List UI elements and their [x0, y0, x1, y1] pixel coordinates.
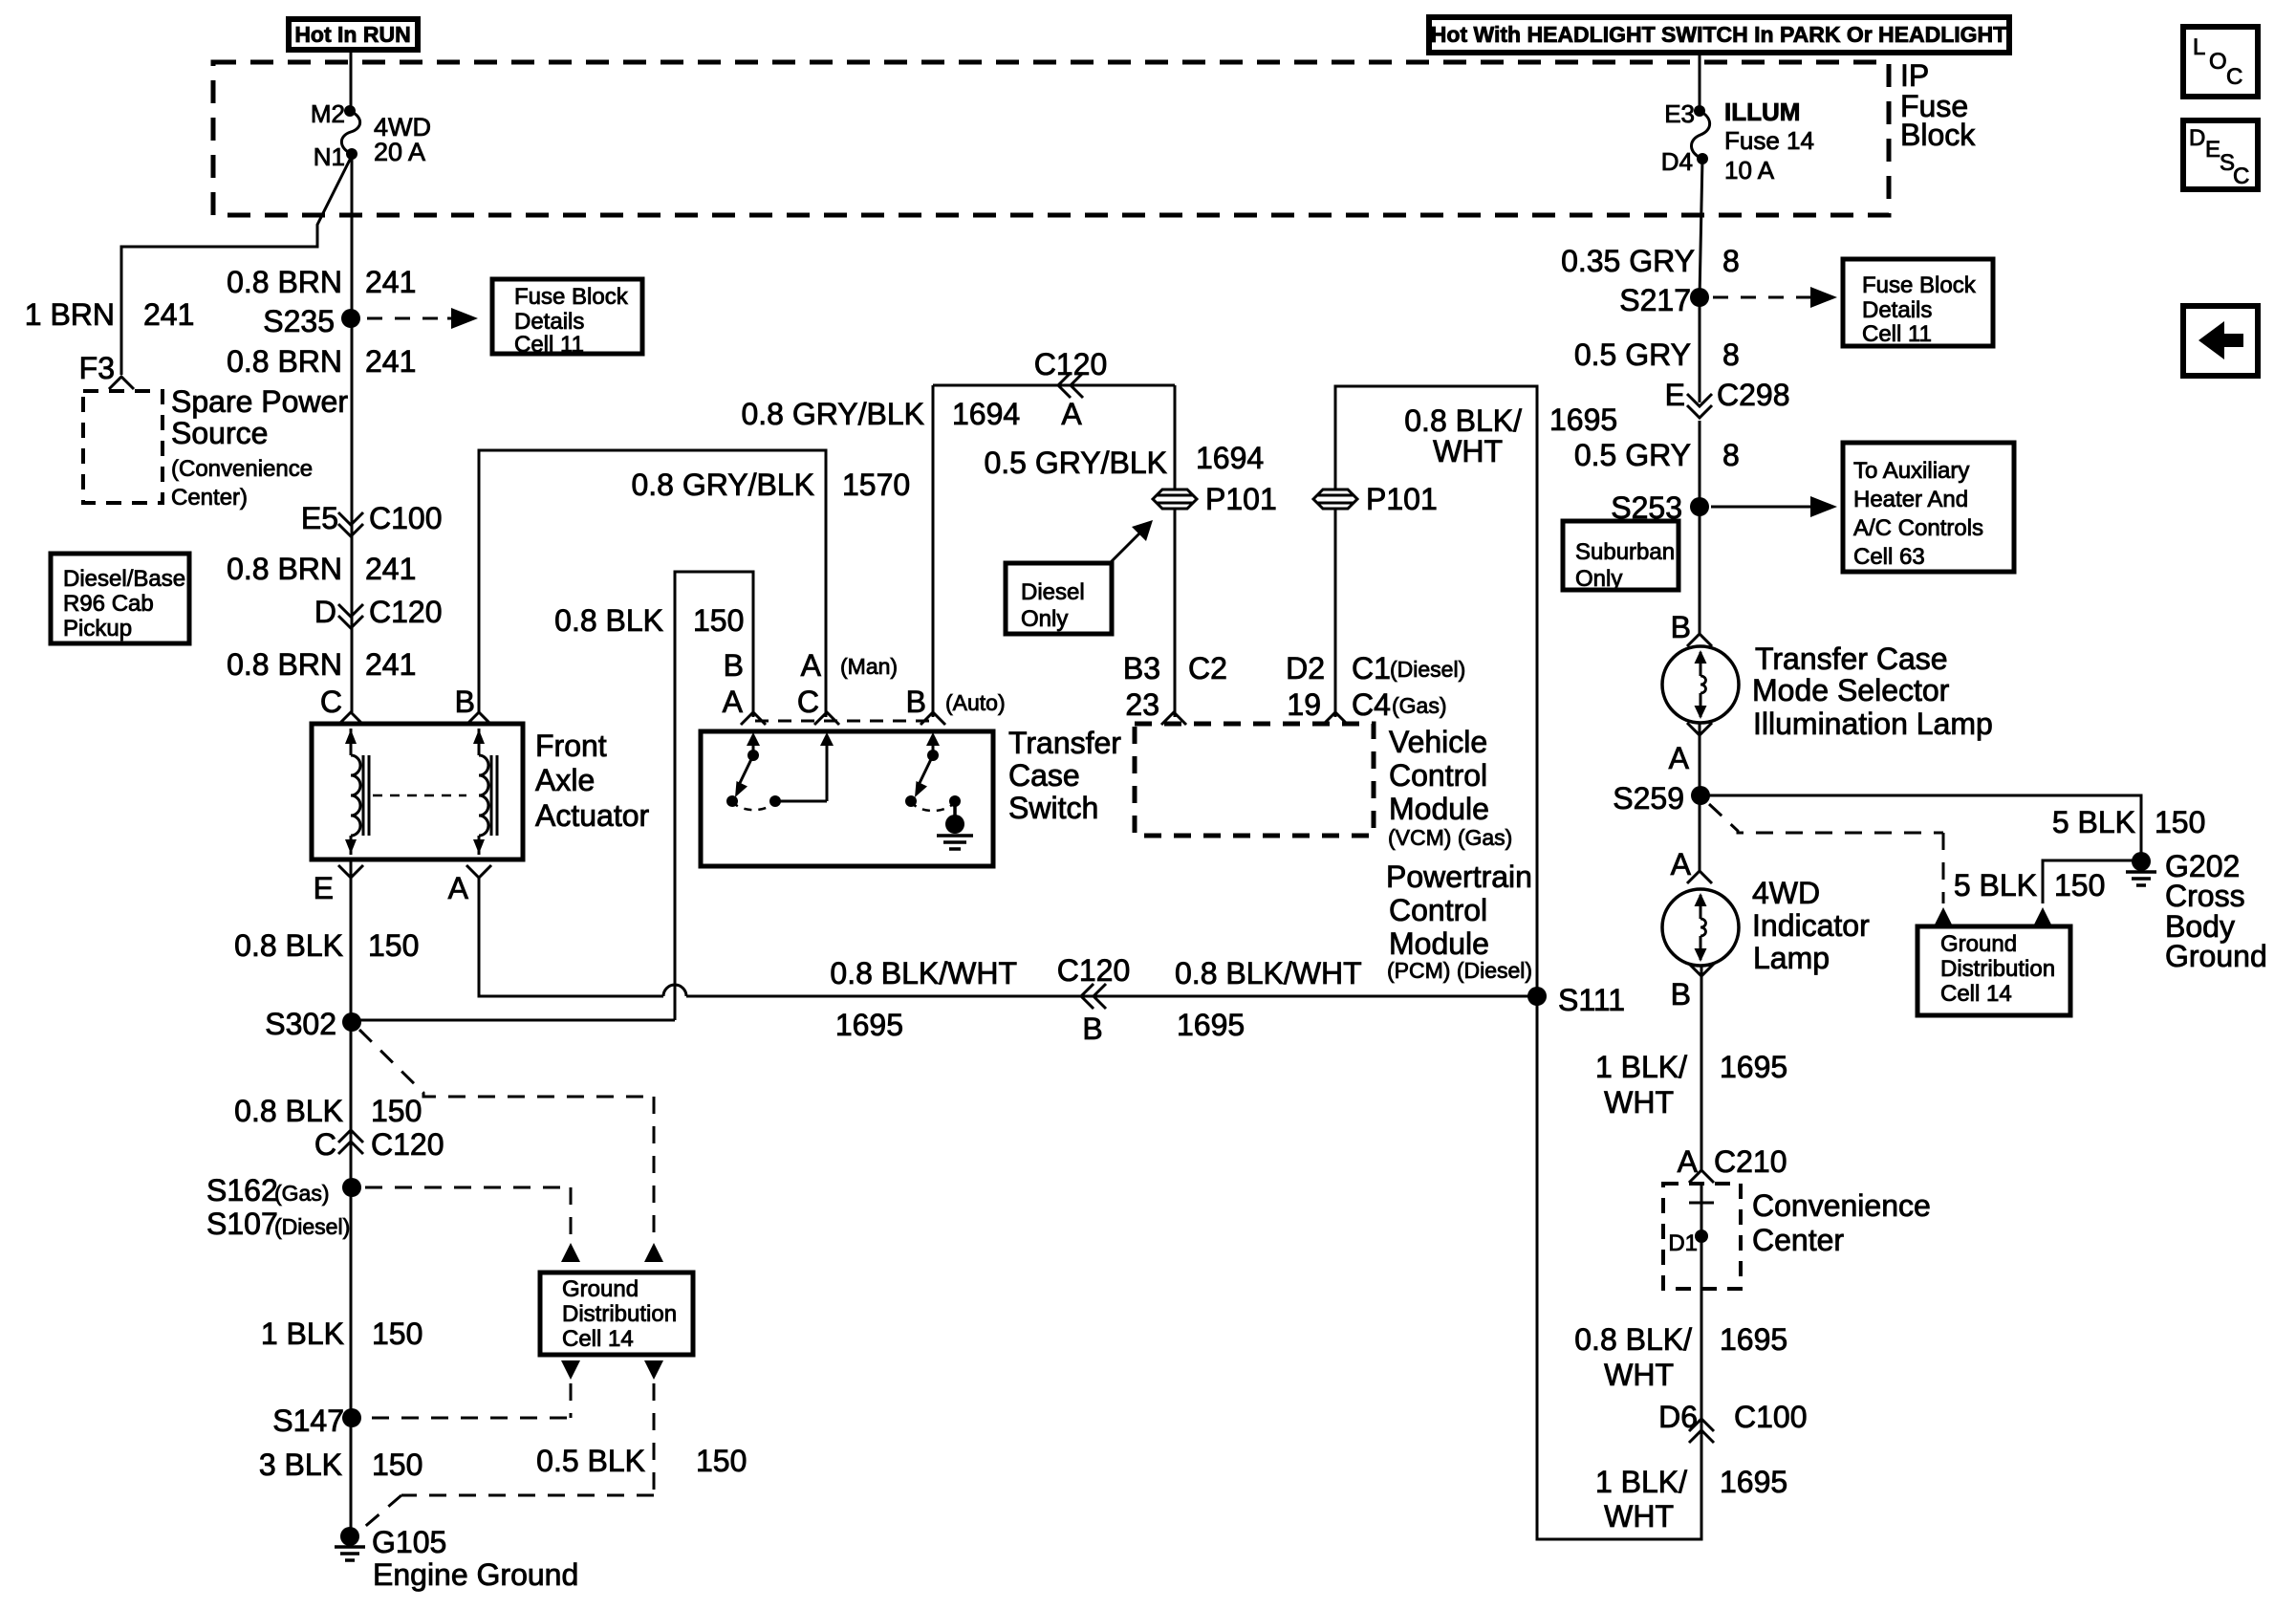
svg-text:(PCM) (Diesel): (PCM) (Diesel) [1387, 958, 1532, 983]
svg-text:(Man): (Man) [840, 654, 898, 679]
wire: D4 down to S217 [1700, 159, 1702, 297]
component: Spare Power Source dashed box [83, 391, 162, 503]
svg-text:Cell 63: Cell 63 [1853, 544, 1925, 570]
component: Vehicle Control Module dashed box [1135, 724, 1374, 836]
ground G202 Cross Body Ground [2132, 852, 2151, 871]
svg-text:Cell 11: Cell 11 [514, 332, 584, 358]
svg-text:B3: B3 [1123, 651, 1160, 685]
svg-text:0.8 BLK/WHT: 0.8 BLK/WHT [1175, 956, 1362, 990]
svg-text:1695: 1695 [1549, 402, 1617, 437]
component: Transfer Case Switch box [701, 731, 993, 866]
svg-text:C: C [320, 685, 342, 719]
svg-text:IP: IP [1900, 58, 1929, 93]
svg-text:D1: D1 [1668, 1230, 1698, 1256]
svg-text:C1: C1 [1352, 651, 1391, 685]
fuse F 4WD 20A (M2-N1) [344, 105, 356, 117]
reference box: To Auxiliary Heater And A/C Controls Cell 63 [1843, 443, 2014, 572]
svg-text:Pickup: Pickup [63, 616, 132, 642]
svg-text:8: 8 [1722, 244, 1740, 278]
wire: VCM/PCM pin C1-C4 up through P101 over to S111 riser [1335, 386, 1537, 996]
svg-text:Center): Center) [171, 485, 248, 511]
svg-text:S111: S111 [1558, 983, 1625, 1017]
svg-text:Source: Source [171, 416, 268, 450]
wire: convenience center down to C100 [1700, 1289, 1703, 1455]
svg-text:0.8 BLK: 0.8 BLK [234, 928, 343, 963]
splice S147 [342, 1408, 361, 1427]
svg-text:150: 150 [368, 928, 419, 963]
wire: S217 down to C298 [1699, 297, 1701, 402]
svg-text:0.8 BRN: 0.8 BRN [227, 647, 342, 682]
svg-text:C: C [797, 685, 819, 719]
svg-text:A: A [1671, 847, 1692, 881]
note box: Diesel Only with arrow to P101 [1006, 563, 1112, 634]
svg-text:Ground: Ground [1940, 931, 2017, 957]
svg-text:Details: Details [514, 309, 584, 335]
svg-text:C100: C100 [369, 501, 443, 535]
svg-text:Control: Control [1389, 893, 1487, 927]
svg-text:C: C [314, 1127, 336, 1162]
svg-text:Cell 11: Cell 11 [1862, 321, 1932, 347]
svg-text:8: 8 [1722, 337, 1740, 372]
svg-text:S162: S162 [206, 1173, 278, 1207]
dashed reference arrow S217 to Fuse Block Details [1713, 296, 1807, 299]
svg-text:Cross: Cross [2165, 879, 2245, 913]
svg-text:Illumination Lamp: Illumination Lamp [1753, 707, 1993, 741]
pin A out of illumination lamp [1687, 723, 1712, 735]
svg-text:0.8 BLK/: 0.8 BLK/ [1404, 403, 1522, 438]
svg-text:10 A: 10 A [1724, 156, 1775, 185]
svg-text:B: B [906, 685, 926, 719]
svg-text:Only: Only [1021, 606, 1068, 632]
svg-text:WHT: WHT [1433, 434, 1503, 468]
svg-text:Diesel/Base: Diesel/Base [63, 566, 185, 592]
wire: actuator A down and right to S111 [479, 878, 663, 996]
svg-text:150: 150 [2054, 868, 2105, 903]
svg-text:5 BLK: 5 BLK [1954, 868, 2037, 903]
svg-text:1694: 1694 [952, 397, 1020, 431]
svg-text:G105: G105 [372, 1525, 446, 1559]
svg-text:P101: P101 [1205, 482, 1277, 516]
svg-text:23: 23 [1125, 687, 1159, 722]
ground G105 Engine Ground [340, 1527, 359, 1546]
svg-text:5 BLK: 5 BLK [2052, 805, 2135, 839]
grommet P101 (diesel) [1153, 490, 1197, 509]
reference box: Ground Distribution Cell 14 (left) [540, 1273, 693, 1355]
svg-text:D4: D4 [1661, 147, 1693, 176]
lamp: Transfer Case Mode Selector Illumination Lamp [1662, 646, 1739, 723]
svg-text:0.5 GRY: 0.5 GRY [1574, 337, 1691, 372]
dashed reference arrow S235 to Fuse Block Details [367, 317, 447, 320]
wire: S253 down to lamp pin B [1699, 507, 1701, 634]
svg-text:0.35 GRY: 0.35 GRY [1561, 244, 1695, 278]
component: Front Axle Actuator box [312, 724, 523, 859]
svg-text:A: A [801, 648, 822, 683]
svg-text:P101: P101 [1366, 482, 1438, 516]
wire: Hot In RUN feed down to fuse M2 [350, 50, 353, 111]
svg-text:S147: S147 [272, 1403, 344, 1438]
svg-text:Hot With HEADLIGHT SWITCH In P: Hot With HEADLIGHT SWITCH In PARK Or HEA… [1431, 22, 2006, 47]
svg-text:R96 Cab: R96 Cab [63, 591, 154, 617]
svg-text:ILLUM: ILLUM [1724, 98, 1800, 126]
wire: C120 jumper to transfer case switch pin B (Auto) [932, 385, 935, 717]
splice S111 [1527, 987, 1547, 1006]
reference arrow S253 to auxiliary controls [1711, 506, 1814, 509]
dashed wire: Ground Distribution down to G105 [644, 1360, 663, 1380]
svg-text:Transfer Case: Transfer Case [1755, 642, 1948, 676]
svg-text:Powertrain: Powertrain [1386, 859, 1532, 894]
svg-text:C4: C4 [1352, 687, 1391, 722]
svg-text:C120: C120 [369, 595, 443, 629]
reference box: Fuse Block Details Cell 11 (right) [1843, 259, 1993, 346]
svg-text:E: E [1665, 378, 1685, 412]
svg-text:Ground: Ground [562, 1276, 639, 1302]
svg-text:Fuse 14: Fuse 14 [1724, 126, 1814, 155]
svg-text:A: A [1678, 1144, 1699, 1179]
svg-text:B: B [455, 685, 475, 719]
svg-text:0.8 GRY/BLK: 0.8 GRY/BLK [631, 468, 814, 502]
svg-text:3 BLK: 3 BLK [259, 1447, 342, 1482]
svg-text:(Convenience: (Convenience [171, 456, 313, 482]
svg-text:Diesel: Diesel [1021, 579, 1085, 605]
svg-text:1694: 1694 [1196, 441, 1264, 475]
svg-text:Front: Front [535, 729, 607, 763]
svg-text:S107: S107 [206, 1207, 278, 1241]
svg-text:1570: 1570 [842, 468, 910, 502]
note box: Suburban Only [1563, 521, 1679, 590]
wire: actuator E down to S302 [350, 859, 353, 1022]
switch contact B (right) [932, 736, 935, 755]
svg-text:0.8 BRN: 0.8 BRN [227, 344, 342, 379]
svg-text:1695: 1695 [1177, 1008, 1245, 1042]
svg-text:Control: Control [1389, 758, 1487, 793]
svg-text:Distribution: Distribution [1940, 956, 2055, 982]
wire: S302 junction to 0.8 BLK riser [352, 1019, 675, 1022]
wire hop over 0.8 BLK wire [663, 985, 686, 996]
svg-text:WHT: WHT [1604, 1358, 1674, 1392]
svg-text:E: E [314, 871, 334, 905]
dashed wire: S162 to Ground Distribution Cell 14 [365, 1186, 571, 1189]
switch wiper to pin C [775, 800, 827, 803]
wire: lamp B down to C210 [1700, 966, 1703, 1170]
svg-text:O: O [2209, 49, 2227, 75]
svg-text:A/C Controls: A/C Controls [1853, 515, 1983, 541]
switch contact A (left) [752, 736, 755, 755]
title box: Hot With HEADLIGHT SWITCH In PARK Or HEADLIGHT [1429, 17, 2009, 53]
svg-text:B: B [1671, 610, 1691, 644]
wire: S259 to G202 [1700, 795, 2141, 861]
wire: S302 down to G105 [350, 1022, 353, 1536]
svg-text:C298: C298 [1717, 378, 1790, 412]
splice S253 [1690, 497, 1709, 516]
legend box: back arrow [2183, 306, 2258, 376]
wire: N1 down main left feed [351, 154, 354, 712]
dashed wire: Ground Distribution down to S147 [561, 1360, 580, 1380]
svg-text:Convenience: Convenience [1752, 1188, 1931, 1223]
svg-text:0.8 BLK/: 0.8 BLK/ [1574, 1322, 1692, 1357]
svg-text:(Auto): (Auto) [945, 690, 1006, 715]
svg-text:B: B [1671, 977, 1691, 1012]
svg-text:N1: N1 [314, 142, 345, 171]
svg-text:A: A [448, 871, 469, 905]
svg-text:M2: M2 [311, 99, 345, 128]
svg-text:19: 19 [1287, 687, 1321, 722]
svg-text:C2: C2 [1188, 651, 1227, 685]
svg-text:0.5 BLK: 0.5 BLK [536, 1444, 645, 1478]
wire: headlight feed down to fuse E3 [1699, 53, 1701, 111]
fuse ILLUM Fuse 14 10A (E3-D4) [1694, 105, 1705, 117]
svg-text:241: 241 [143, 297, 194, 332]
svg-text:B: B [724, 648, 744, 683]
svg-text:Fuse Block: Fuse Block [514, 284, 629, 310]
svg-text:1 BLK/: 1 BLK/ [1595, 1465, 1687, 1499]
svg-text:A: A [723, 685, 744, 719]
svg-text:0.5 GRY/BLK: 0.5 GRY/BLK [984, 446, 1167, 480]
svg-text:To Auxiliary: To Auxiliary [1853, 458, 1969, 484]
svg-text:(Diesel): (Diesel) [274, 1214, 350, 1239]
svg-text:Module: Module [1389, 792, 1489, 826]
reference box: Ground Distribution Cell 14 (right) [1917, 926, 2070, 1015]
svg-text:Cell 14: Cell 14 [562, 1326, 634, 1352]
wire: actuator B up over to transfer case switch pin A-C [479, 450, 826, 717]
svg-text:C: C [2233, 163, 2249, 189]
svg-text:Mode Selector: Mode Selector [1752, 673, 1950, 707]
splice S302 [342, 1012, 361, 1032]
svg-text:1695: 1695 [1720, 1050, 1787, 1084]
svg-text:Block: Block [1900, 118, 1976, 152]
svg-text:0.8 BRN: 0.8 BRN [227, 552, 342, 586]
svg-text:D2: D2 [1286, 651, 1325, 685]
svg-text:241: 241 [365, 647, 416, 682]
legend box LOC [2183, 27, 2258, 97]
component: Convenience Center dashed box [1663, 1184, 1741, 1289]
actuator coil left [350, 729, 353, 755]
svg-text:150: 150 [372, 1316, 422, 1351]
svg-text:Spare Power: Spare Power [171, 384, 348, 419]
svg-text:241: 241 [365, 344, 416, 379]
svg-text:C120: C120 [1034, 347, 1108, 381]
svg-text:C120: C120 [1057, 953, 1131, 988]
svg-text:C100: C100 [1734, 1400, 1808, 1434]
lamp: 4WD Indicator Lamp [1662, 889, 1739, 966]
svg-text:241: 241 [365, 552, 416, 586]
svg-text:S259: S259 [1613, 781, 1684, 816]
connector dashes linking switch pins [755, 720, 931, 723]
svg-text:A: A [1061, 397, 1082, 431]
dashed wire: S259 to Ground Distribution [1709, 804, 1943, 833]
svg-text:0.5 GRY: 0.5 GRY [1574, 438, 1691, 472]
svg-text:1695: 1695 [1720, 1322, 1787, 1357]
IP Fuse Block dashed box [213, 62, 1889, 215]
svg-text:0.8 BLK: 0.8 BLK [234, 1094, 343, 1128]
wire: C120 down through P101 to VCM pin B3 [1174, 385, 1177, 717]
splice S162(Gas)/S107(Diesel) [342, 1178, 361, 1197]
svg-text:WHT: WHT [1604, 1085, 1674, 1120]
svg-text:Lamp: Lamp [1753, 941, 1830, 975]
svg-text:Transfer: Transfer [1008, 726, 1121, 760]
svg-text:S302: S302 [265, 1007, 336, 1041]
svg-text:Heater And: Heater And [1853, 487, 1968, 512]
wire: switch pin B-A up over and down to S302 junction line [675, 572, 753, 1020]
svg-text:150: 150 [696, 1444, 747, 1478]
svg-text:D: D [314, 595, 336, 629]
svg-text:Only: Only [1575, 566, 1622, 592]
svg-text:Ground: Ground [2165, 939, 2267, 973]
svg-text:150: 150 [371, 1094, 422, 1128]
svg-text:Distribution: Distribution [562, 1301, 677, 1327]
actuator link dashed [373, 794, 466, 797]
svg-text:1 BLK: 1 BLK [261, 1316, 344, 1351]
svg-text:E: E [2205, 137, 2220, 163]
svg-text:1695: 1695 [835, 1008, 903, 1042]
svg-text:150: 150 [372, 1447, 422, 1482]
note box: Diesel/Base R96 Cab Pickup [51, 554, 189, 643]
svg-text:Vehicle: Vehicle [1389, 725, 1487, 759]
svg-text:20 A: 20 A [374, 138, 425, 166]
svg-text:0.8 GRY/BLK: 0.8 GRY/BLK [741, 397, 924, 431]
svg-text:S235: S235 [263, 304, 335, 338]
svg-text:C120: C120 [371, 1127, 444, 1162]
svg-text:150: 150 [693, 603, 744, 638]
svg-text:0.8 BLK/WHT: 0.8 BLK/WHT [830, 956, 1017, 990]
svg-text:S217: S217 [1619, 283, 1691, 317]
svg-text:E5: E5 [301, 501, 338, 535]
svg-text:Module: Module [1389, 926, 1489, 961]
wire: diagonal branch from N1 to spare power feed [121, 156, 352, 375]
splice S259 [1691, 786, 1710, 805]
wire: C298 down to S253 [1699, 421, 1701, 507]
svg-text:(VCM) (Gas): (VCM) (Gas) [1388, 825, 1512, 850]
wire: G202 to Ground Distribution [2043, 860, 2141, 903]
svg-text:1 BLK/: 1 BLK/ [1595, 1050, 1687, 1084]
svg-text:Engine Ground: Engine Ground [373, 1557, 578, 1592]
svg-text:D: D [2189, 125, 2205, 151]
svg-text:8: 8 [1722, 438, 1740, 472]
svg-text:Suburban: Suburban [1575, 539, 1675, 565]
svg-text:Center: Center [1752, 1223, 1844, 1257]
reference box: Fuse Block Details Cell 11 [492, 279, 642, 354]
svg-text:4WD: 4WD [1752, 876, 1820, 910]
dashed wire: S302 to Ground Distribution Cell 14 [359, 1030, 654, 1097]
svg-text:0.8 BRN: 0.8 BRN [227, 265, 342, 299]
svg-text:1695: 1695 [1720, 1465, 1787, 1499]
svg-text:241: 241 [365, 265, 416, 299]
svg-text:Actuator: Actuator [535, 798, 650, 833]
svg-text:Switch: Switch [1008, 791, 1098, 825]
svg-text:B: B [1082, 1012, 1102, 1046]
svg-text:L: L [2193, 34, 2205, 60]
svg-text:(Diesel): (Diesel) [1390, 657, 1465, 682]
svg-text:1 BRN: 1 BRN [25, 297, 115, 332]
svg-text:Hot In RUN: Hot In RUN [294, 22, 410, 47]
legend box DESC [2183, 120, 2258, 189]
svg-text:Fuse Block: Fuse Block [1862, 272, 1977, 298]
splice S217 [1690, 288, 1709, 307]
svg-text:(Gas): (Gas) [274, 1181, 330, 1206]
svg-text:Cell 14: Cell 14 [1940, 981, 2012, 1007]
wire: C100 down and around to S111 [1537, 996, 1701, 1539]
svg-text:(Gas): (Gas) [1392, 693, 1447, 718]
switch lever to ground [953, 801, 957, 817]
svg-text:Indicator: Indicator [1752, 908, 1870, 943]
svg-text:Case: Case [1008, 758, 1080, 793]
pin B out of 4WD Indicator Lamp [1689, 964, 1714, 976]
svg-text:C210: C210 [1714, 1144, 1787, 1179]
actuator coil right [478, 729, 481, 755]
svg-text:E3: E3 [1664, 99, 1695, 128]
svg-text:Axle: Axle [535, 763, 595, 797]
title box: Hot In RUN [289, 19, 418, 50]
svg-text:C: C [2226, 64, 2242, 90]
svg-text:0.8 BLK: 0.8 BLK [554, 603, 663, 638]
svg-text:F3: F3 [79, 351, 115, 385]
svg-text:WHT: WHT [1604, 1499, 1674, 1534]
svg-text:A: A [1669, 741, 1690, 775]
wire: lamp A down to S259 [1699, 723, 1701, 871]
grommet P101 (gas) [1313, 490, 1357, 509]
svg-text:Details: Details [1862, 297, 1932, 323]
svg-text:150: 150 [2155, 805, 2205, 839]
